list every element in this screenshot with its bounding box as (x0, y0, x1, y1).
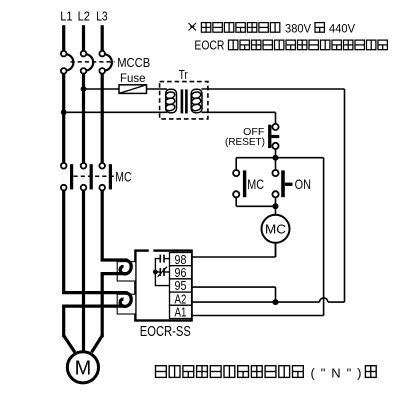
contactor MC pole 3 top terminal (99, 163, 105, 169)
pushbutton ON contact bar (281, 170, 285, 197)
wire A1 rail vertical (323, 158, 325, 316)
contact MC aux bottom terminal (233, 191, 239, 197)
wire terminal A2 (192, 301, 320, 303)
wire L1 CT2 loop (120, 293, 131, 307)
relay CT window 2 notch (117, 294, 136, 314)
wire terminal A1 to A1 rail (192, 315, 324, 317)
MCCB pole 1 arc contact (66, 54, 73, 70)
pushbutton ON actuator (285, 183, 293, 186)
wire OFF to junction (275, 149, 277, 158)
wire L1 slant to motor (64, 336, 75, 353)
wire L3 below MC (101, 190, 104, 261)
wire L3 CT1 exit (101, 272, 125, 275)
svg-text:MC: MC (265, 222, 286, 236)
relay internal line 98 right (164, 258, 170, 260)
wire right rail vertical (344, 89, 346, 302)
wire L1 CT2 exit (62, 305, 124, 308)
wire junction B to coil (275, 206, 277, 215)
svg-text:MC: MC (115, 169, 131, 184)
wire L2 below MC (82, 190, 85, 350)
transformer primary winding (165, 89, 176, 112)
MCCB pole 3 arc contact (105, 54, 112, 70)
relay terminal box 95 (170, 279, 192, 292)
pushbutton OFF contact bar (268, 125, 271, 148)
wire MC aux to bottom junction (235, 197, 237, 206)
wire L3 below CT1 (101, 274, 104, 338)
svg-text:440V: 440V (329, 21, 355, 35)
wire L1 MCCB to MC (62, 74, 65, 163)
wire coil MC down (275, 243, 277, 257)
wire L1 incoming (62, 25, 65, 51)
contactor MC pole 2 top terminal (81, 163, 87, 169)
contactor MC pole 1 bar (70, 164, 73, 189)
transformer core bars (181, 89, 184, 113)
wire L3 slant to motor (92, 336, 103, 353)
coil MC body (262, 215, 290, 243)
contactor MC pole 2 bar (90, 164, 93, 189)
contactor MC pole 1 top terminal (61, 163, 67, 169)
contactor MC pole 2 bottom terminal (81, 185, 87, 191)
wire L1 CT2 entry (62, 291, 127, 294)
wire A2 to right rail (328, 301, 345, 303)
note line 1 CJK text (201, 23, 210, 33)
wire L3 incoming (101, 25, 104, 51)
wire junction A right (276, 157, 324, 159)
wire down to MC aux (235, 158, 237, 170)
pushbutton OFF top terminal (272, 124, 278, 130)
node junction L1-transformer (61, 109, 67, 115)
MCCB pole 1 bottom terminal (61, 68, 67, 74)
caption CJK text (156, 366, 167, 378)
relay internal NC contact to 96 (159, 268, 161, 276)
wire L1 below CT2 (62, 306, 65, 337)
MCCB pole 2 top terminal (81, 51, 87, 57)
relay internal node common (153, 270, 158, 275)
contactor MC pole 1 bottom terminal (61, 185, 67, 191)
contactor MC linkage dashed line (74, 175, 115, 177)
pushbutton ON top terminal (272, 170, 278, 176)
note line 1 huo CJK (315, 23, 324, 33)
wire terminal 98 to coil MC (192, 256, 276, 258)
svg-text:A1: A1 (175, 305, 187, 320)
pushbutton OFF bottom terminal (272, 143, 278, 149)
motor M body (67, 352, 98, 383)
transformer Tr dashed enclosure (160, 82, 208, 119)
svg-text:L3: L3 (96, 9, 107, 23)
wire secondary top to right rail (201, 88, 344, 90)
wire L2 to fuse (84, 88, 120, 90)
wire 95 drop (275, 287, 277, 302)
node junction B (273, 203, 279, 209)
wire ON to bottom junction (275, 197, 277, 206)
contactor MC pole 3 bottom terminal (99, 185, 105, 191)
wire fuse to transformer (147, 88, 168, 90)
wire L1 below MC (62, 190, 65, 294)
wire L2 MCCB to MC (82, 74, 85, 163)
wire L3 CT1 loop (120, 260, 131, 274)
MCCB linkage dashed line (71, 61, 115, 63)
MCCB pole 3 top terminal (99, 51, 105, 57)
wire L2 incoming (82, 25, 85, 51)
svg-text:Fuse: Fuse (120, 71, 146, 85)
contact MC aux bar (243, 170, 246, 197)
pushbutton ON bottom terminal (272, 191, 278, 197)
node junction A (273, 155, 279, 161)
relay internal NC slash (158, 267, 167, 277)
svg-text:M: M (75, 358, 92, 380)
relay internal line to 96 (155, 271, 160, 273)
contact MC aux top terminal (233, 170, 239, 176)
relay internal NO contact to 98 (159, 255, 161, 263)
note line 2 CJK text (229, 40, 238, 50)
wire 98 riser (275, 243, 277, 257)
wire secondary bottom to OFF column (201, 111, 275, 113)
svg-text:Tr: Tr (179, 68, 188, 82)
wire down to OFF button (275, 112, 277, 124)
transformer secondary winding (191, 89, 202, 112)
relay terminal box A1 (170, 305, 192, 318)
note reference mark (189, 23, 197, 31)
relay terminal box 96 (170, 266, 192, 279)
svg-text:(RESET): (RESET) (225, 137, 265, 148)
relay terminal box A2 (170, 292, 192, 305)
svg-text:EOCR: EOCR (194, 39, 224, 53)
relay EOCR-SS body (135, 251, 191, 321)
svg-text:L1: L1 (60, 9, 72, 23)
wire A2 hop over A1 rail (320, 298, 328, 302)
svg-text:L2: L2 (78, 9, 90, 23)
pushbutton OFF actuator (271, 135, 279, 138)
relay EOCR-SS body top gap (149, 249, 154, 253)
MCCB pole 1 top terminal (61, 51, 67, 57)
MCCB pole 3 bottom terminal (99, 68, 105, 74)
svg-text:EOCR-SS: EOCR-SS (140, 324, 191, 340)
svg-text:ON: ON (295, 176, 311, 192)
relay terminal box 98 (170, 253, 192, 266)
svg-text:MCCB: MCCB (117, 55, 150, 70)
fuse diagonal (119, 85, 147, 94)
MCCB pole 2 arc contact (86, 54, 93, 70)
relay internal common line (155, 259, 169, 286)
wire terminal 95 (192, 286, 276, 288)
svg-text:MC: MC (247, 176, 264, 192)
wire L1 to transformer primary bottom (64, 111, 167, 113)
fuse Fuse body (119, 85, 147, 94)
relay CT window 1 notch (117, 262, 136, 281)
svg-text:380V: 380V (285, 21, 311, 35)
wire junction to ON (275, 158, 277, 170)
caption type CJK (365, 366, 376, 378)
wire L3 CT1 entry (101, 258, 128, 261)
node junction L2-fuse (81, 86, 87, 92)
node junction A2-95 (273, 299, 279, 305)
MCCB pole 2 bottom terminal (81, 68, 87, 74)
wire junction A left (236, 157, 275, 159)
contactor MC pole 3 bar (109, 164, 112, 189)
wire L3 MCCB to MC (101, 74, 104, 163)
